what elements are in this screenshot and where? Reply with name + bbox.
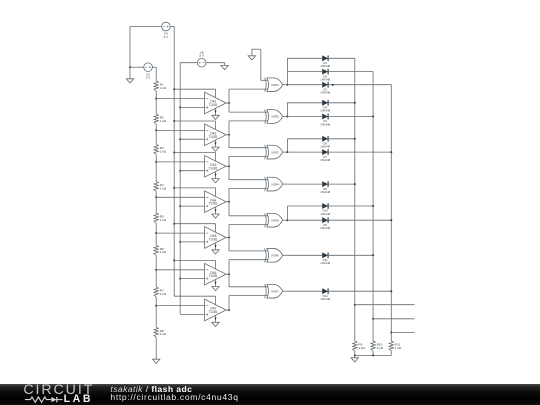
wire XOR1 output branch vertical (286, 58, 288, 84)
svg-text:5 V: 5 V (164, 35, 170, 39)
diode D5 (1N4148) (320, 69, 330, 82)
junction on bus (354, 102, 356, 104)
svg-text:1 kΩ: 1 kΩ (160, 250, 167, 254)
wire OA4 output vertical jog (228, 189, 230, 216)
wire to XOR5 lower input (229, 224, 268, 226)
junction ground node (354, 354, 356, 356)
svg-text:1N4148: 1N4148 (320, 158, 330, 162)
svg-text:1N4148: 1N4148 (320, 212, 330, 216)
wire tap1 to OA1 - input (156, 98, 204, 100)
wire D8 anode (287, 183, 322, 185)
wire XOR1 upper input (261, 79, 269, 81)
resistor R11 (389, 341, 402, 351)
resistor R3 (154, 145, 167, 155)
wire V+ to OA7 supply pin (174, 295, 215, 297)
wire OA4 output (226, 201, 229, 203)
wire to ground (252, 48, 261, 50)
ground (op-amp OA3 V- pin) (212, 179, 219, 183)
diode D10 (1N4148) (320, 203, 330, 216)
wire D12 anode (287, 290, 322, 292)
wire XOR5 output branch vertical (286, 206, 288, 220)
svg-text:1 kΩ: 1 kΩ (160, 86, 167, 90)
node ladder tap 2 (155, 129, 157, 131)
svg-text:5 V: 5 V (199, 54, 205, 58)
junction Vin rail (179, 138, 181, 140)
wire R10 bottom (372, 351, 374, 355)
wire to XOR2 upper input (229, 111, 268, 113)
wire V2 left lead (130, 66, 144, 68)
svg-text:1 kΩ: 1 kΩ (395, 346, 402, 350)
diode D3 (1N4148) (320, 114, 330, 127)
CircuitLab footer bar (0, 384, 540, 405)
wire D5 cathode to bus (328, 71, 373, 73)
ground (ladder bottom) (153, 359, 160, 363)
junction on bus (354, 183, 356, 185)
xor gate XOR7 (265, 284, 283, 298)
wire D4 cathode to bus (328, 102, 355, 104)
wire V+ to OA6 supply pin (174, 259, 215, 261)
ground (left) (126, 67, 133, 83)
wire D8 cathode to bus (328, 183, 355, 185)
svg-text:1 kΩ: 1 kΩ (160, 186, 167, 190)
wire D2 cathode to bus (328, 84, 391, 86)
wire D7 anode (287, 151, 322, 153)
resistor R10 (371, 341, 384, 351)
wire tap7 to OA7 - input (156, 305, 204, 307)
diode D6 (1N4148) (320, 136, 330, 149)
wire OA2 output (226, 134, 229, 136)
svg-text:1N4148: 1N4148 (320, 78, 330, 82)
op-amp OA1 (TL081 comparator) (205, 89, 226, 115)
wire tap2 to OA2 - input (156, 129, 204, 131)
footer url text (110, 393, 238, 402)
svg-text:1 kΩ: 1 kΩ (358, 346, 365, 350)
wire OA5 output (226, 237, 229, 239)
junction OA1 output node (228, 102, 230, 104)
resistor R6 (154, 245, 167, 255)
wire ladder segment (155, 192, 157, 214)
wire D1 cathode to bus (328, 57, 355, 59)
svg-text:XOR1: XOR1 (271, 83, 279, 87)
op-amp OA3 (TL081 comparator) (205, 153, 226, 179)
xor gate XOR6 (265, 248, 283, 262)
ground (op-amp OA1 V- pin) (212, 115, 219, 119)
wire D7 cathode to bus (328, 151, 391, 153)
diode D12 (1N4148) (320, 288, 330, 301)
op-amp OA7 (TL081 comparator) (205, 296, 226, 322)
wire ladder segment (155, 223, 157, 245)
wire V+ to OA4 supply pin (174, 187, 215, 189)
node bus B2 (MSB) vertical (354, 58, 356, 341)
svg-text:XOR6: XOR6 (271, 254, 279, 258)
wire D12 cathode to bus (328, 290, 391, 292)
wire V5 left lead (130, 26, 162, 28)
wire ladder segment (155, 337, 157, 359)
ground (op-amp OA7 V- pin) (212, 322, 219, 326)
wire ladder segment (155, 297, 157, 327)
svg-text:1 kΩ: 1 kΩ (160, 292, 167, 296)
svg-text:TL081: TL081 (209, 274, 218, 278)
wire XOR6 output (283, 254, 288, 256)
wire D3 cathode to bus (328, 116, 373, 118)
ground (op-amp OA4 V- pin) (212, 214, 219, 218)
wire D6 anode (287, 138, 322, 140)
svg-text:TL081: TL081 (209, 103, 218, 107)
svg-text:1 kΩ: 1 kΩ (160, 119, 167, 123)
wire V+ to OA1 supply pin (174, 88, 215, 90)
node ladder tap 5 (155, 232, 157, 234)
svg-text:1N4148: 1N4148 (320, 91, 330, 95)
wire OA1 output (226, 102, 229, 104)
wire XOR7 output (283, 290, 288, 292)
wire output bit B0 (391, 331, 414, 333)
wire D9 anode (287, 219, 322, 221)
wire to XOR1 lower input (229, 88, 268, 90)
wire V5 right lead (170, 26, 174, 28)
svg-text:1 kΩ: 1 kΩ (377, 346, 384, 350)
wire Vin to OA5 + input (180, 241, 204, 243)
wire V+ to OA2 supply pin (174, 120, 215, 122)
wire ladder segment (155, 155, 157, 182)
junction OA4 output node (228, 201, 230, 203)
wire tap5 to OA5 - input (156, 232, 204, 234)
wire D3 anode (287, 116, 322, 118)
wire OA1 output vertical jog (228, 89, 230, 112)
xor gate XOR5 (265, 213, 283, 227)
svg-text:TL081: TL081 (209, 166, 218, 170)
wire XOR3 output (283, 151, 288, 153)
wire OA3 output vertical jog (228, 157, 230, 180)
wire Vin rail (vertical) (179, 63, 181, 315)
junction V+ rail (173, 223, 175, 225)
voltage source V2 (144, 63, 153, 80)
xor gate XOR3 (265, 145, 283, 159)
junction on bus (354, 138, 356, 140)
junction on bus (372, 116, 374, 118)
wire ladder segment (155, 124, 157, 145)
junction Vin rail (179, 278, 181, 280)
svg-text:1N4148: 1N4148 (320, 190, 330, 194)
diode D4 (1N4148) (320, 100, 330, 113)
wire V+ to OA3 supply pin (174, 152, 215, 154)
wire Vin to OA3 + input (180, 170, 204, 172)
junction Vin rail (179, 106, 181, 108)
node ladder tap 7 (155, 305, 157, 307)
svg-text:TL081: TL081 (209, 238, 218, 242)
junction V+ rail (173, 187, 175, 189)
junction on bus (372, 205, 374, 207)
wire OA6 output vertical jog (228, 260, 230, 287)
op-amp OA2 (TL081 comparator) (205, 121, 226, 147)
voltage source V5 (162, 22, 171, 39)
svg-text:1N4148: 1N4148 (320, 297, 330, 301)
junction OA7 output node (228, 309, 230, 311)
wire to XOR7 lower input (229, 295, 268, 297)
svg-text:XOR3: XOR3 (271, 150, 279, 154)
junction OA2 output node (228, 134, 230, 136)
resistor R1 (154, 81, 167, 91)
wire pulldown common (355, 354, 392, 356)
junction on bus (354, 304, 356, 306)
svg-text:TL081: TL081 (209, 135, 218, 139)
xor gate XOR1 (265, 78, 283, 92)
wire output bit B1 (373, 318, 414, 320)
wire V+ to OA5 supply pin (174, 223, 215, 225)
wire V2 right lead (152, 66, 156, 68)
svg-text:1N4148: 1N4148 (320, 226, 330, 230)
resistor R7 (154, 287, 167, 297)
wire D9 cathode to bus (328, 219, 391, 221)
node ladder tap 1 (155, 98, 157, 100)
svg-text:1 kΩ: 1 kΩ (160, 218, 167, 222)
diode D8 (1N4148) (320, 181, 330, 194)
wire OA7 output (226, 309, 229, 311)
resistor R2 (154, 114, 167, 124)
wire Vin to OA4 + input (180, 205, 204, 207)
wire XOR1 output (283, 84, 288, 86)
junction V+ rail (173, 152, 175, 154)
wire tap6 to OA6 - input (156, 269, 204, 271)
junction OA6 output node (228, 273, 230, 275)
svg-text:TL081: TL081 (209, 310, 218, 314)
svg-text:1 kΩ: 1 kΩ (160, 332, 167, 336)
diode D2 (1N4148) (320, 82, 330, 95)
wire OA2 output vertical jog (228, 121, 230, 148)
wire D11 cathode to bus (328, 254, 373, 256)
wire D5 anode (287, 71, 322, 73)
wire D11 anode (287, 254, 322, 256)
wire tap4 to OA4 - input (156, 196, 204, 198)
node ladder tap 6 (155, 269, 157, 271)
wire V+ supply rail (vertical) (173, 27, 175, 297)
resistor R9 (353, 341, 366, 351)
wire to XOR4 upper input (229, 179, 268, 181)
wire Vin to OA6 + input (180, 278, 204, 280)
junction on bus (390, 331, 392, 333)
wire R9 bottom (354, 351, 356, 355)
svg-text:1 kΩ: 1 kΩ (160, 149, 167, 153)
wire D4 anode (287, 102, 322, 104)
wire tap3 to OA3 - input (156, 161, 204, 163)
diode D7 (1N4148) (320, 149, 330, 162)
node bus B1 vertical (372, 72, 374, 341)
op-amp OA5 (TL081 comparator) (205, 224, 226, 250)
junction V+ rail (173, 88, 175, 90)
svg-text:TL081: TL081 (209, 202, 218, 206)
wire OA5 output vertical jog (228, 225, 230, 251)
junction Vin rail (179, 241, 181, 243)
junction on bus (390, 219, 392, 221)
wire R11 bottom (390, 351, 392, 355)
junction on bus (390, 290, 392, 292)
node ladder tap 4 (155, 196, 157, 198)
wire D2 anode (287, 84, 322, 86)
resistor R5 (154, 213, 167, 223)
wire to XOR6 lower input (229, 259, 268, 261)
svg-text:1N4148: 1N4148 (320, 109, 330, 113)
wire to XOR3 lower input (229, 156, 268, 158)
ground (XOR1 input) (248, 49, 255, 60)
wire to XOR3 upper input (229, 147, 268, 149)
junction XOR2 output branch (286, 116, 288, 118)
resistor R8 (154, 327, 167, 337)
svg-text:1N4148: 1N4148 (320, 122, 330, 126)
wire OA6 output (226, 273, 229, 275)
wire left drop to V2 (129, 27, 131, 68)
junction V2/ground node (129, 66, 131, 68)
junction OA3 output node (228, 165, 230, 167)
junction OA5 output node (228, 237, 230, 239)
wire to XOR5 upper input (229, 215, 268, 217)
junction pulldown common (372, 354, 374, 356)
ground (op-amp OA6 V- pin) (212, 287, 219, 291)
xor gate XOR4 (265, 177, 283, 191)
wire OA7 output vertical jog (228, 296, 230, 310)
junction XOR1 output branch (286, 84, 288, 86)
junction XOR3 output branch (286, 151, 288, 153)
resistor R4 (154, 182, 167, 192)
junction V+ rail (173, 120, 175, 122)
svg-text:XOR4: XOR4 (271, 182, 279, 186)
ground (output pulldowns) (351, 355, 358, 362)
wire XOR2 output (283, 116, 288, 118)
junction on bus (390, 151, 392, 153)
node ladder tap 3 (155, 161, 157, 163)
node bus B0 (LSB) vertical (390, 85, 392, 341)
junction on bus (372, 318, 374, 320)
ground (op-amp OA5 V- pin) (212, 250, 219, 254)
wire to XOR7 upper input (229, 286, 268, 288)
wire Vin to OA1 + input (180, 106, 204, 108)
svg-text:5 V: 5 V (146, 76, 152, 80)
wire V8 right lead (206, 62, 225, 64)
svg-text:XOR5: XOR5 (271, 218, 279, 222)
wire to XOR2 lower input (229, 120, 268, 122)
wire D10 anode (287, 205, 322, 207)
wire XOR3 output branch vertical (286, 139, 288, 152)
junction XOR5 output branch (286, 219, 288, 221)
wire D10 cathode to bus (328, 205, 373, 207)
diode D1 (1N4148) (320, 55, 330, 68)
wire XOR2 output branch vertical (286, 103, 288, 117)
wire XOR5 output (283, 219, 288, 221)
wire Vin to OA2 + input (180, 138, 204, 140)
ground (V8) (221, 63, 228, 70)
junction V+ rail (173, 259, 175, 261)
wire to XOR4 lower input (229, 188, 268, 190)
CircuitLab logo text (23, 383, 94, 397)
op-amp OA6 (TL081 comparator) (205, 260, 226, 286)
svg-text:1N4148: 1N4148 (320, 64, 330, 68)
wire ladder segment (155, 67, 157, 81)
diode D11 (1N4148) (320, 252, 330, 265)
svg-text:1N4148: 1N4148 (320, 261, 330, 265)
junction Vin rail (179, 205, 181, 207)
footer title text (110, 385, 192, 394)
wire V8 left lead to Vin rail (180, 62, 197, 64)
wire OA3 output (226, 165, 229, 167)
wire D6 cathode to bus (328, 138, 355, 140)
svg-text:1N4148: 1N4148 (320, 145, 330, 149)
wire XOR4 output (283, 183, 288, 185)
xor gate XOR2 (265, 110, 283, 124)
op-amp OA4 (TL081 comparator) (205, 188, 226, 214)
junction on bus (372, 254, 374, 256)
svg-text:XOR7: XOR7 (271, 289, 279, 293)
junction Vin rail (179, 170, 181, 172)
voltage source V8 (197, 50, 206, 67)
wire D1 anode (287, 57, 322, 59)
wire XOR1 upper input vertical (260, 49, 262, 80)
wire Vin to OA7 + input (180, 313, 204, 315)
logo resistor+diode symbol (24, 395, 66, 405)
ground (op-amp OA2 V- pin) (212, 147, 219, 151)
wire output bit B2 (355, 304, 415, 306)
node marker on D2 row (332, 84, 334, 86)
svg-text:XOR2: XOR2 (271, 115, 279, 119)
wire to XOR6 upper input (229, 250, 268, 252)
wire ladder segment (155, 255, 157, 287)
diode D9 (1N4148) (320, 217, 330, 230)
wire ladder segment (155, 91, 157, 114)
